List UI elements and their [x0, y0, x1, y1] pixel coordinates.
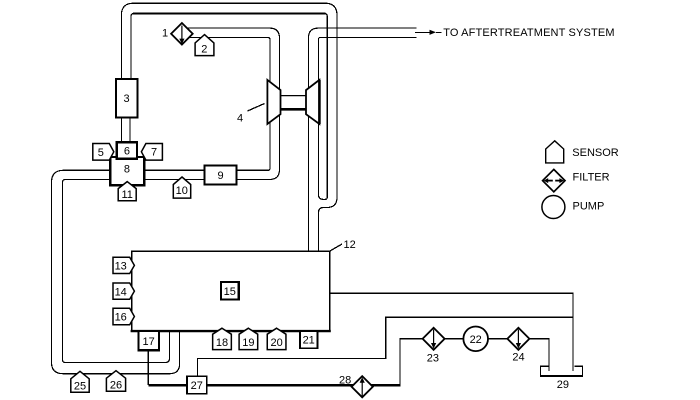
- svg-text:9: 9: [217, 170, 223, 182]
- svg-text:7: 7: [151, 147, 157, 159]
- svg-text:18: 18: [216, 337, 228, 349]
- svg-text:PUMP: PUMP: [573, 201, 605, 213]
- svg-text:4: 4: [237, 112, 243, 124]
- svg-text:22: 22: [470, 334, 482, 346]
- svg-text:20: 20: [270, 337, 282, 349]
- svg-text:27: 27: [191, 380, 203, 392]
- svg-text:25: 25: [74, 381, 86, 393]
- svg-text:26: 26: [110, 380, 122, 392]
- svg-text:5: 5: [98, 147, 104, 159]
- svg-text:1: 1: [162, 27, 168, 39]
- svg-text:19: 19: [242, 337, 254, 349]
- svg-text:14: 14: [115, 286, 127, 298]
- svg-text:13: 13: [115, 260, 127, 272]
- svg-text:6: 6: [124, 146, 130, 158]
- svg-text:23: 23: [427, 352, 439, 364]
- svg-text:28: 28: [339, 375, 351, 387]
- svg-text:15: 15: [224, 286, 236, 298]
- svg-text:12: 12: [344, 239, 356, 251]
- svg-text:10: 10: [176, 185, 188, 197]
- svg-text:3: 3: [124, 93, 130, 105]
- svg-text:16: 16: [115, 312, 127, 324]
- svg-text:SENSOR: SENSOR: [572, 147, 619, 159]
- svg-text:24: 24: [512, 351, 524, 363]
- svg-text:FILTER: FILTER: [573, 171, 610, 183]
- svg-text:29: 29: [557, 379, 569, 391]
- svg-text:21: 21: [303, 335, 315, 347]
- svg-text:8: 8: [124, 164, 130, 176]
- svg-text:11: 11: [121, 189, 132, 201]
- svg-text:TO AFTERTREATMENT SYSTEM: TO AFTERTREATMENT SYSTEM: [443, 27, 614, 39]
- svg-text:2: 2: [201, 44, 207, 56]
- svg-text:17: 17: [142, 336, 154, 348]
